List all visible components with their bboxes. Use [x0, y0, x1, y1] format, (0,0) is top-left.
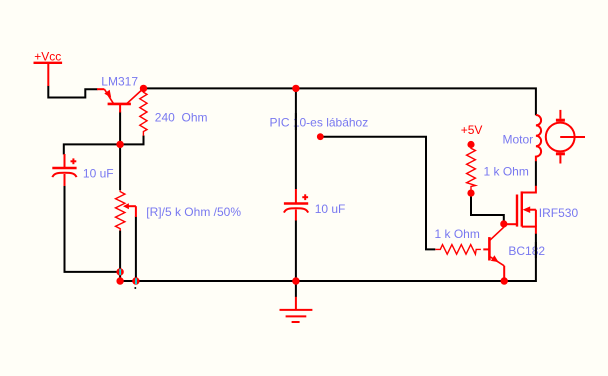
node cyan tick 2	[135, 278, 137, 284]
wire LM317 adj down	[119, 112, 121, 145]
wire pot top	[119, 144, 121, 190]
capacitor C1 10uF	[52, 154, 76, 186]
svg-text:240 Ohm: 240 Ohm	[155, 111, 208, 125]
node adj	[116, 141, 123, 148]
resistor 1 k Ohm vertical	[467, 145, 476, 194]
wire bottom rail	[120, 234, 536, 282]
svg-text:+5V: +5V	[461, 123, 483, 137]
potentiometer wiper arrow	[123, 203, 129, 209]
capacitor C2 10uF mid	[284, 189, 308, 221]
svg-text:PIC 10-es lábához: PIC 10-es lábához	[270, 116, 369, 130]
transistor Q1 BC182	[483, 224, 504, 281]
node cap-pot	[116, 268, 123, 275]
wire over BC182 label	[535, 242, 537, 258]
svg-text:10 uF: 10 uF	[315, 202, 346, 216]
wire over label	[295, 113, 297, 130]
node top mid	[292, 85, 299, 92]
node gate	[500, 220, 507, 227]
node emitter bottom	[501, 277, 508, 284]
motor body circle	[546, 110, 585, 164]
BC182 emitter arrow	[491, 255, 499, 262]
wire wiper down	[135, 217, 137, 282]
svg-text:BC182: BC182	[508, 244, 545, 258]
svg-text:LM317: LM317	[101, 75, 138, 89]
wire middle branch lower	[295, 220, 297, 281]
svg-text:10 uF: 10 uF	[83, 166, 114, 180]
svg-text:1 k Ohm: 1 k Ohm	[435, 227, 480, 241]
node +5V dot	[467, 141, 474, 148]
svg-text:Motor: Motor	[503, 133, 534, 147]
resistor R 240 Ohm	[140, 88, 147, 135]
power flag +Vcc	[34, 63, 63, 86]
node LM317 out	[140, 85, 147, 92]
node cyan tick 1	[119, 269, 121, 275]
IRF530 substrate arrow	[523, 206, 531, 213]
svg-text:[R]/5 k Ohm /50%: [R]/5 k Ohm /50%	[146, 205, 241, 219]
wire pot bottom	[119, 231, 121, 282]
wire adj horizontal	[64, 136, 144, 155]
node bottom left	[116, 277, 123, 284]
wire coil to drain	[535, 161, 537, 186]
transistor Q2 IRF530	[504, 186, 536, 234]
svg-text:IRF530: IRF530	[539, 206, 579, 220]
LM317 input arrow	[104, 90, 111, 98]
node wiper bottom	[132, 277, 139, 284]
node PIC	[317, 133, 324, 140]
node ground	[292, 277, 299, 284]
svg-text:+Vcc: +Vcc	[34, 50, 61, 64]
op-amp regulator LM317 symbol	[97, 88, 144, 112]
node 1k bottom dot	[467, 190, 474, 197]
wire middle branch upper	[295, 88, 297, 189]
potentiometer R 5k 50%	[116, 190, 136, 231]
wire ground stem black	[295, 281, 297, 297]
wire top rail	[144, 88, 536, 115]
ground	[280, 297, 313, 322]
wire Vcc input jog	[48, 86, 97, 98]
wire cap1 bottom to junction	[65, 186, 121, 272]
svg-text:1 k Ohm: 1 k Ohm	[484, 164, 529, 178]
motor coil	[536, 115, 541, 161]
wire PIC pin 10	[320, 137, 435, 250]
wire 1k to gate node	[471, 194, 504, 222]
resistor 1 k Ohm horizontal	[435, 245, 481, 255]
node stray dot	[134, 287, 136, 289]
